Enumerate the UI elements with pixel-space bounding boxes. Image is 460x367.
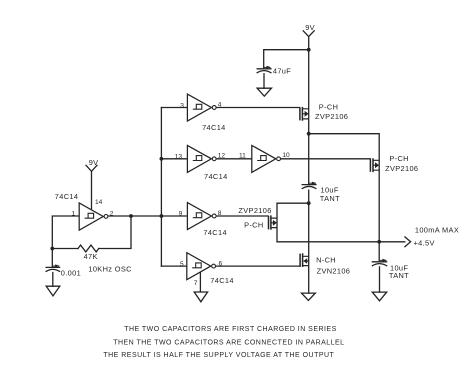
svg-text:10: 10	[282, 152, 290, 159]
svg-text:THE TWO CAPACITORS ARE FIRST C: THE TWO CAPACITORS ARE FIRST CHARGED IN …	[124, 326, 337, 333]
svg-text:ZVP2106: ZVP2106	[385, 164, 418, 173]
svg-text:47uF: 47uF	[273, 66, 291, 75]
svg-text:8: 8	[218, 210, 222, 217]
svg-text:9V: 9V	[305, 23, 315, 32]
svg-text:10KHz OSC: 10KHz OSC	[88, 264, 132, 273]
svg-text:9: 9	[179, 211, 183, 218]
svg-text:5: 5	[180, 261, 184, 268]
svg-text:12: 12	[218, 153, 226, 160]
svg-text:+4.5V: +4.5V	[414, 238, 435, 247]
svg-text:74C14: 74C14	[55, 192, 79, 201]
svg-text:4: 4	[218, 101, 222, 108]
svg-text:74C14: 74C14	[203, 228, 227, 237]
svg-text:7: 7	[194, 280, 198, 287]
svg-text:14: 14	[95, 199, 103, 206]
svg-text:ZVN2106: ZVN2106	[317, 267, 351, 276]
svg-text:2: 2	[110, 211, 114, 218]
svg-text:3: 3	[180, 102, 184, 109]
svg-text:11: 11	[239, 153, 246, 160]
svg-text:6: 6	[219, 261, 223, 268]
svg-text:1: 1	[72, 210, 76, 217]
svg-text:THE RESULT IS HALF THE SUPPLY: THE RESULT IS HALF THE SUPPLY VOLTAGE AT…	[103, 352, 334, 359]
svg-text:ZVP2106: ZVP2106	[315, 112, 348, 121]
svg-text:74C14: 74C14	[202, 123, 226, 132]
svg-text:N-CH: N-CH	[316, 256, 336, 265]
svg-text:74C14: 74C14	[210, 276, 234, 285]
svg-text:47K: 47K	[84, 252, 98, 261]
svg-text:13: 13	[175, 153, 183, 160]
svg-text:0.001: 0.001	[61, 268, 81, 277]
svg-text:9V: 9V	[89, 158, 99, 167]
svg-text:P-CH: P-CH	[389, 154, 408, 163]
svg-text:74C14: 74C14	[204, 172, 228, 181]
svg-text:THEN THE TWO CAPACITORS ARE CO: THEN THE TWO CAPACITORS ARE CONNECTED IN…	[113, 339, 344, 346]
svg-text:ZVP2106: ZVP2106	[238, 206, 271, 215]
svg-text:100mA MAX: 100mA MAX	[415, 226, 459, 235]
svg-text:TANT: TANT	[389, 271, 409, 280]
svg-text:P-CH: P-CH	[244, 221, 263, 230]
svg-text:TANT: TANT	[320, 194, 340, 203]
svg-text:P-CH: P-CH	[319, 103, 338, 112]
